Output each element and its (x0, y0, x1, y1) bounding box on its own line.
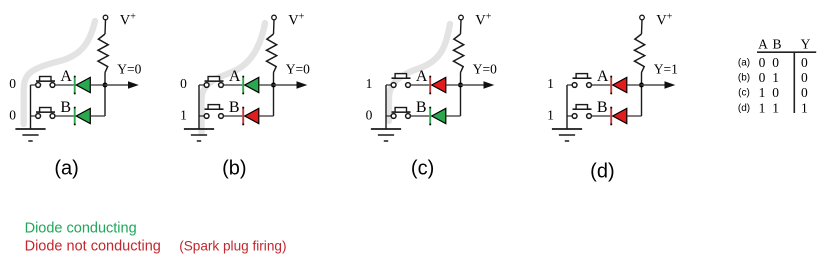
ground (371, 129, 401, 141)
wire resistor to output node (104, 73, 106, 86)
svg-text:B: B (229, 99, 240, 116)
resistor (454, 34, 464, 73)
ground (15, 129, 45, 141)
svg-text:(c): (c) (738, 88, 750, 99)
truth table row (a) (738, 55, 808, 70)
pushbutton switch B (open) (204, 105, 223, 119)
wire node down to diode B branch (273, 85, 275, 116)
output arrow (105, 84, 129, 86)
output node junction dot (103, 83, 108, 88)
wire diode A to node branch (259, 84, 274, 86)
svg-text:A: A (60, 68, 72, 85)
svg-text:(a): (a) (738, 57, 750, 68)
svg-text:1: 1 (180, 108, 187, 123)
resistor (267, 34, 277, 73)
wire switch A to diode (55, 84, 74, 86)
wire resistor to output node (641, 73, 643, 86)
diode A (not conducting red) (429, 76, 445, 95)
wire bus to switch B (386, 115, 391, 117)
wire switch B to diode (592, 115, 611, 117)
svg-text:(d): (d) (738, 103, 750, 114)
ground (552, 129, 582, 141)
wire node down to diode B branch (460, 85, 462, 116)
spark plug wire (gray curve) circuit c (389, 24, 450, 121)
wire switch B to diode (411, 115, 430, 117)
truth table row (c) (738, 85, 808, 100)
wire supply to resistor (641, 20, 644, 34)
wire supply to resistor (460, 20, 463, 34)
diode B (not conducting red) (610, 107, 626, 126)
left bus wire (566, 85, 568, 129)
svg-text:(a): (a) (54, 157, 78, 179)
svg-text:(c): (c) (411, 157, 434, 179)
spark plug wire (gray curve) circuit a (24, 21, 95, 124)
output arrow (642, 84, 666, 86)
svg-text:Y=1: Y=1 (654, 62, 678, 77)
wire supply to resistor (273, 20, 276, 34)
wire diode B to node branch (259, 115, 274, 117)
wire node down to diode B branch (641, 85, 643, 116)
svg-text:0: 0 (366, 108, 373, 123)
wire bus to switch B (567, 115, 572, 117)
svg-text:(b): (b) (738, 73, 750, 84)
wire node down to diode B branch (104, 85, 106, 116)
svg-text:A: A (597, 68, 609, 85)
svg-text:A: A (416, 68, 428, 85)
truth table vertical divider (793, 52, 795, 113)
truth table row (d) (738, 100, 808, 115)
left bus wire (198, 85, 200, 129)
resistor (635, 34, 645, 73)
svg-text:B: B (597, 99, 608, 116)
svg-text:0: 0 (9, 76, 16, 91)
output node junction dot (458, 83, 463, 88)
svg-text:0: 0 (180, 76, 187, 91)
wire bus to switch B (199, 115, 204, 117)
wire supply to resistor (104, 20, 107, 34)
wire resistor to output node (460, 73, 462, 86)
wire bus to switch B (31, 115, 36, 117)
svg-text:Diode not conducting(Spark plu: Diode not conducting(Spark plug firing) (25, 238, 287, 254)
svg-text:(b): (b) (222, 157, 246, 179)
svg-text:1: 1 (366, 76, 373, 91)
pushbutton switch B (closed) (36, 108, 55, 119)
pushbutton switch A (open) (391, 74, 410, 88)
V+ supply terminal circuit b (272, 15, 277, 20)
svg-text:(d): (d) (590, 160, 614, 182)
left bus wire (30, 85, 32, 129)
wire diode B to node branch (446, 115, 461, 117)
output node junction dot (271, 83, 276, 88)
svg-text:0: 0 (9, 108, 16, 123)
output arrow (461, 84, 485, 86)
diode B (conducting green) (74, 107, 90, 126)
svg-text:1: 1 (547, 108, 554, 123)
wire switch B to diode (224, 115, 243, 117)
wire diode B to node branch (627, 115, 642, 117)
svg-text:Y=0: Y=0 (286, 62, 310, 77)
wire diode A to node branch (90, 84, 105, 86)
wire switch A to diode (592, 84, 611, 86)
svg-text:Diode conducting: Diode conducting (25, 220, 137, 236)
output arrow (274, 84, 298, 86)
svg-text:Y=0: Y=0 (117, 62, 141, 77)
diode A (not conducting red) (610, 76, 626, 95)
svg-text:A: A (229, 68, 241, 85)
svg-text:B: B (416, 99, 427, 116)
wire bus to switch A (199, 84, 204, 86)
output node junction dot (639, 83, 644, 88)
wire bus to switch A (567, 84, 572, 86)
pushbutton switch A (closed) (36, 77, 55, 88)
pushbutton switch B (open) (572, 105, 591, 119)
wire bus to switch A (31, 84, 36, 86)
pushbutton switch B (closed) (391, 108, 410, 119)
diode A (conducting green) (74, 76, 90, 95)
svg-text:Y=0: Y=0 (473, 62, 497, 77)
pushbutton switch A (open) (572, 74, 591, 88)
resistor (98, 34, 108, 73)
wire resistor to output node (273, 73, 275, 86)
svg-text:B: B (60, 99, 71, 116)
wire diode A to node branch (627, 84, 642, 86)
wire bus to switch A (386, 84, 391, 86)
ground (184, 129, 214, 141)
diode B (conducting green) (429, 107, 445, 126)
truth table header underline (757, 51, 816, 53)
V+ supply terminal circuit d (640, 15, 645, 20)
diode A (conducting green) (242, 76, 258, 95)
wire switch B to diode (55, 115, 74, 117)
truth table row (b) (738, 70, 808, 85)
pushbutton switch A (closed) (204, 77, 223, 88)
wire switch A to diode (411, 84, 430, 86)
wire diode A to node branch (446, 84, 461, 86)
wire diode B to node branch (90, 115, 105, 117)
left bus wire (385, 85, 387, 129)
svg-text:1: 1 (547, 76, 554, 91)
V+ supply terminal circuit c (459, 15, 464, 20)
spark plug wire (gray curve) circuit b (202, 23, 266, 133)
wire switch A to diode (224, 84, 243, 86)
diode B (not conducting red) (242, 107, 258, 126)
V+ supply terminal circuit a (103, 15, 108, 20)
